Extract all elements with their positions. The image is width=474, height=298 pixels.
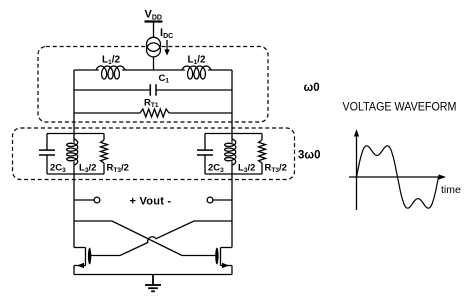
resistor RT3/2 left <box>101 140 108 163</box>
wire tank bottom left <box>74 112 140 114</box>
wire right rail middle <box>231 161 233 247</box>
transistor Q2 source arrow <box>222 263 229 268</box>
arrow IDC current direction <box>164 40 169 56</box>
transistor Q1 source arrow <box>77 263 84 268</box>
wire tank top right <box>208 69 232 71</box>
capacitor 2C3 left <box>39 150 55 155</box>
wire left rail middle <box>73 161 75 247</box>
transistor Q1 channel <box>85 248 87 266</box>
inductor L3/2 left <box>67 139 78 165</box>
terminal Vout plus <box>94 197 100 203</box>
wire left rail upper <box>73 70 75 143</box>
inductor L1/2 right <box>182 66 211 79</box>
dashed box omega0 tank <box>38 47 268 123</box>
ground <box>145 275 161 292</box>
transistor Q2 drain stub <box>221 247 233 249</box>
svg-text:IDC: IDC <box>160 27 173 40</box>
wire 3omega0 left group bottom <box>47 173 104 175</box>
waveform x-axis arrowhead <box>439 174 447 179</box>
wire 3omega0 right group bottom <box>205 173 262 175</box>
wire tank bottom right <box>169 112 232 114</box>
svg-text:RT1: RT1 <box>144 98 159 110</box>
resistor RT3/2 right <box>259 140 266 163</box>
transistor Q1 drain stub <box>74 247 86 249</box>
waveform y-axis <box>356 135 358 210</box>
wire right cap branch upper <box>204 134 206 150</box>
wire left cap branch lower <box>46 155 48 174</box>
wire VDD to current source <box>153 22 155 39</box>
inductor L1/2 left <box>96 66 125 79</box>
capacitor C1 <box>150 84 156 95</box>
svg-text:ω0: ω0 <box>304 82 320 94</box>
svg-text:3ω0: 3ω0 <box>298 150 321 162</box>
wire current source to tank center tap <box>153 57 155 70</box>
waveform y-axis arrowhead <box>354 129 359 137</box>
wire tank top middle <box>122 69 185 71</box>
wire 3omega0 left group top <box>47 133 104 135</box>
wire tank top left <box>74 69 99 71</box>
transistor Q2 channel <box>220 248 222 266</box>
transistor Q1 source stub <box>74 265 86 267</box>
wire tank mid left <box>74 89 150 91</box>
transistor Q1 gate bar <box>88 248 91 265</box>
svg-text:L1/2: L1/2 <box>102 55 121 67</box>
wire left cap branch upper <box>46 134 48 150</box>
waveform curve <box>357 146 439 208</box>
wire right cap branch lower <box>204 155 206 174</box>
svg-text:RT3/2: RT3/2 <box>265 163 287 175</box>
wire bottom rail <box>74 274 232 276</box>
svg-text:VDD: VDD <box>145 9 162 22</box>
transistor Q2 source stub <box>221 265 233 267</box>
wire cross-couple right to left gate with hop <box>91 221 232 256</box>
svg-text:L3/2: L3/2 <box>79 163 96 175</box>
svg-text:2C3: 2C3 <box>208 163 224 175</box>
wire left res branch upper <box>103 134 105 141</box>
wire Vout left lead <box>74 199 94 201</box>
wire Vout right lead <box>213 199 232 201</box>
power rail VDD bar <box>145 20 163 22</box>
wire right rail upper <box>231 70 233 143</box>
inductor L3/2 right <box>225 139 236 165</box>
svg-text:time: time <box>441 184 461 196</box>
wire tank mid right <box>156 89 232 91</box>
capacitor 2C3 right <box>197 150 213 155</box>
svg-text:L3/2: L3/2 <box>238 163 255 175</box>
svg-text:RT3/2: RT3/2 <box>107 163 129 175</box>
transistor Q2 gate bar <box>215 248 218 265</box>
terminal Vout minus <box>207 197 213 203</box>
wire right res branch upper <box>261 134 263 141</box>
wire left res branch lower <box>103 163 105 174</box>
current source IDC <box>147 37 161 57</box>
svg-text:L1/2: L1/2 <box>188 55 207 67</box>
svg-text:+ Vout -: + Vout - <box>130 196 172 208</box>
resistor RT1 <box>140 109 169 117</box>
waveform x-axis <box>349 176 440 178</box>
svg-text:VOLTAGE WAVEFORM: VOLTAGE WAVEFORM <box>343 100 457 114</box>
wire right res branch lower <box>261 163 263 174</box>
wire 3omega0 right group top <box>205 133 262 135</box>
wire Q1 source down <box>73 266 75 275</box>
wire cross-couple left to right gate <box>74 221 216 256</box>
dashed box 3omega0 <box>13 128 295 180</box>
wire Q2 source down <box>231 266 233 275</box>
svg-text:C1: C1 <box>159 73 170 85</box>
svg-text:2C3: 2C3 <box>50 163 66 175</box>
